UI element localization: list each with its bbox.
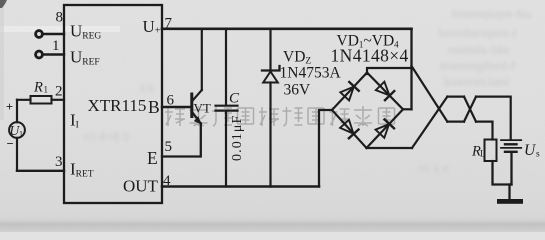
svg-text:C: C <box>229 91 240 107</box>
svg-text:+: + <box>6 100 13 114</box>
wire top rail drop <box>410 29 412 110</box>
svg-text:tnemqiupe-bu: tnemqiupe-bu <box>452 7 531 21</box>
wire R1 to pin2 <box>52 99 65 101</box>
wire collector up <box>201 29 203 90</box>
wire pin8 <box>43 33 64 35</box>
diode VD4 bottom-right <box>367 109 404 148</box>
wire hex bottom <box>447 120 464 122</box>
wire emitter down to pin5 <box>162 124 201 157</box>
scan corner mark <box>0 0 7 8</box>
svg-text:XTR115: XTR115 <box>88 96 147 115</box>
svg-text:OUT: OUT <box>123 177 159 196</box>
bleed-through marks bottom left of bridge <box>82 83 449 175</box>
svg-text:1: 1 <box>52 38 60 54</box>
wire source top <box>16 100 18 122</box>
wire pin3 <box>17 170 64 172</box>
svg-text:B: B <box>148 97 160 117</box>
wire U+ top rail <box>162 27 412 30</box>
svg-text:1N4148×4: 1N4148×4 <box>331 46 409 66</box>
terminal pin1 <box>36 51 43 58</box>
svg-text:2: 2 <box>55 84 63 100</box>
wire bridge bottom stub <box>367 147 413 149</box>
svg-text:L: L <box>480 149 486 159</box>
diode VD1 top-left <box>332 73 367 111</box>
svg-text:noitats-tda: noitats-tda <box>448 43 510 57</box>
svg-text:R: R <box>33 80 43 96</box>
svg-text:4: 4 <box>163 173 171 189</box>
resistor RL <box>485 140 497 162</box>
wire pin6 to base <box>162 106 191 108</box>
wire hex top <box>447 95 464 97</box>
svg-text:36V: 36V <box>284 82 312 99</box>
zener diode VDz <box>262 29 280 187</box>
twisted pair loop wires <box>412 66 511 148</box>
wire lower diagonal <box>412 97 447 148</box>
wire upper diagonal <box>412 66 448 122</box>
svg-text:1N4753A: 1N4753A <box>280 65 342 82</box>
svg-text:E: E <box>147 148 158 168</box>
wire RL bottom <box>493 161 512 185</box>
wire bridge right stub <box>403 108 412 110</box>
diode VD2 top-right <box>367 73 403 110</box>
svg-text:1: 1 <box>19 130 23 139</box>
wire R1 left <box>17 99 31 101</box>
svg-text:bserret-lani: bserret-lani <box>444 75 509 89</box>
svg-text:8: 8 <box>56 10 64 26</box>
wire right cross a <box>464 97 476 122</box>
wire OUT rail <box>162 185 319 188</box>
svg-text:−: − <box>7 137 14 151</box>
capacitor C <box>216 29 238 187</box>
svg-text:3: 3 <box>55 154 63 170</box>
bleed-through text right margin <box>438 7 531 89</box>
svg-text:5: 5 <box>165 139 173 155</box>
wire right cross b <box>464 97 476 122</box>
svg-text:lanoitarepxs-t: lanoitarepxs-t <box>438 26 517 40</box>
svg-text:no q e: no q e <box>418 163 449 175</box>
svg-text:0.01μF: 0.01μF <box>230 115 245 161</box>
svg-text:6: 6 <box>167 93 175 109</box>
svg-text:VT: VT <box>194 101 211 116</box>
wire OUT up to bridge <box>319 110 332 187</box>
ground <box>497 185 523 204</box>
diode VD3 bottom-left <box>332 110 367 148</box>
wire top exit <box>476 97 511 140</box>
svg-text:1: 1 <box>44 85 49 95</box>
wire source bottom <box>16 138 18 171</box>
wire battery bottom <box>510 153 512 185</box>
resistor R1 <box>31 96 52 104</box>
svg-text:s: s <box>536 150 540 160</box>
svg-text:+0 4=8 0: +0 4=8 0 <box>82 130 130 144</box>
watermark 杭州特睿科技有限公司 (vector pseudo-glyphs) <box>165 106 395 126</box>
wire bottom exit <box>476 122 493 140</box>
svg-text:il b: il b <box>140 83 154 95</box>
wire bridge top stub <box>367 68 412 74</box>
battery Us <box>501 140 521 152</box>
transistor VT <box>192 90 202 124</box>
svg-text:tnemngilsnl-f: tnemngilsnl-f <box>440 59 516 73</box>
IC XTR115 <box>64 5 162 203</box>
terminal pin8 <box>36 31 43 38</box>
source UI circle <box>9 122 25 138</box>
wire pin1 <box>43 53 64 55</box>
svg-text:7: 7 <box>165 16 173 32</box>
